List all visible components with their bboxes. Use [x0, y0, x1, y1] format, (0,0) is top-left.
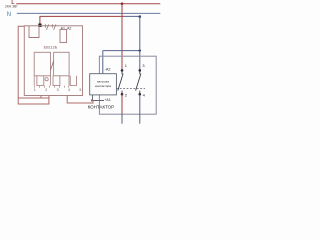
- relay aux contact glyph 2: [53, 24, 56, 30]
- svg-text:+А1: +А1: [104, 98, 110, 102]
- wire A2 vertical: [139, 17, 141, 71]
- svg-text:ЕВ112Б: ЕВ112Б: [44, 45, 58, 49]
- wire contact1 stub below box: [121, 114, 123, 124]
- wire relay terminal stub a: [40, 96, 42, 99]
- relay terminal ticks: [35, 86, 69, 88]
- relay lower terminal box 1: [37, 76, 44, 86]
- relay U1 box: [24, 26, 82, 96]
- svg-text:N: N: [7, 12, 11, 18]
- wire contact2 output: [139, 94, 141, 123]
- wire phase to contact1: [121, 4, 123, 71]
- svg-text:-А2: -А2: [105, 68, 111, 72]
- wire contact1 output: [121, 94, 123, 114]
- node junction on L: [121, 2, 124, 5]
- terminal blob relay 8: [38, 24, 41, 28]
- coil A1 bracket: [93, 95, 105, 101]
- mechanical link dashed: [116, 88, 145, 90]
- relay lower terminal box 2: [53, 76, 60, 86]
- wire relay output (red part): [40, 16, 124, 23]
- svg-text:1: 1: [125, 63, 127, 68]
- wire L line: [16, 3, 160, 5]
- relay internal contact: [51, 61, 54, 70]
- node junction A2 wire: [139, 15, 142, 18]
- wire N line: [17, 12, 161, 14]
- contact 1-2 of K1: [121, 69, 124, 72]
- svg-text:2КА 3Вт: 2КА 3Вт: [5, 5, 18, 9]
- relay lower terminal stubs: [34, 76, 69, 86]
- relay aux contact glyph 1: [45, 24, 48, 30]
- junction box below relay: [18, 98, 49, 104]
- wire relay left feed: [18, 26, 24, 98]
- wire relay terminal stub b: [48, 96, 50, 99]
- relay inner block right: [54, 52, 70, 76]
- coil A1 arrow: [91, 99, 94, 101]
- relay coil squiggle: [45, 78, 48, 81]
- relay terminal box A1A2: [60, 29, 67, 42]
- svg-text:3: 3: [142, 63, 144, 68]
- contact 3-4 of K1: [139, 69, 142, 72]
- svg-text:1 2 3 4 5 6: 1 2 3 4 5 6: [34, 88, 97, 92]
- wire relay output (blue part): [124, 15, 140, 17]
- svg-text:КОНТАКТОР: КОНТАКТОР: [88, 105, 115, 110]
- svg-text:контактора: контактора: [95, 84, 111, 88]
- relay inner block left: [34, 52, 50, 76]
- wire coil A2 drop: [102, 51, 104, 74]
- contactor K1 box: [99, 56, 156, 114]
- wire relay to coil A1: [67, 96, 93, 104]
- coil box K1: [90, 74, 117, 95]
- svg-text:катушка: катушка: [97, 80, 109, 84]
- relay lower terminal box 3: [70, 76, 76, 86]
- relay terminal box 7-8: [29, 26, 39, 38]
- node junction coil A2: [139, 49, 141, 51]
- wire A2 horizontal: [103, 50, 140, 52]
- svg-text:2: 2: [125, 93, 127, 98]
